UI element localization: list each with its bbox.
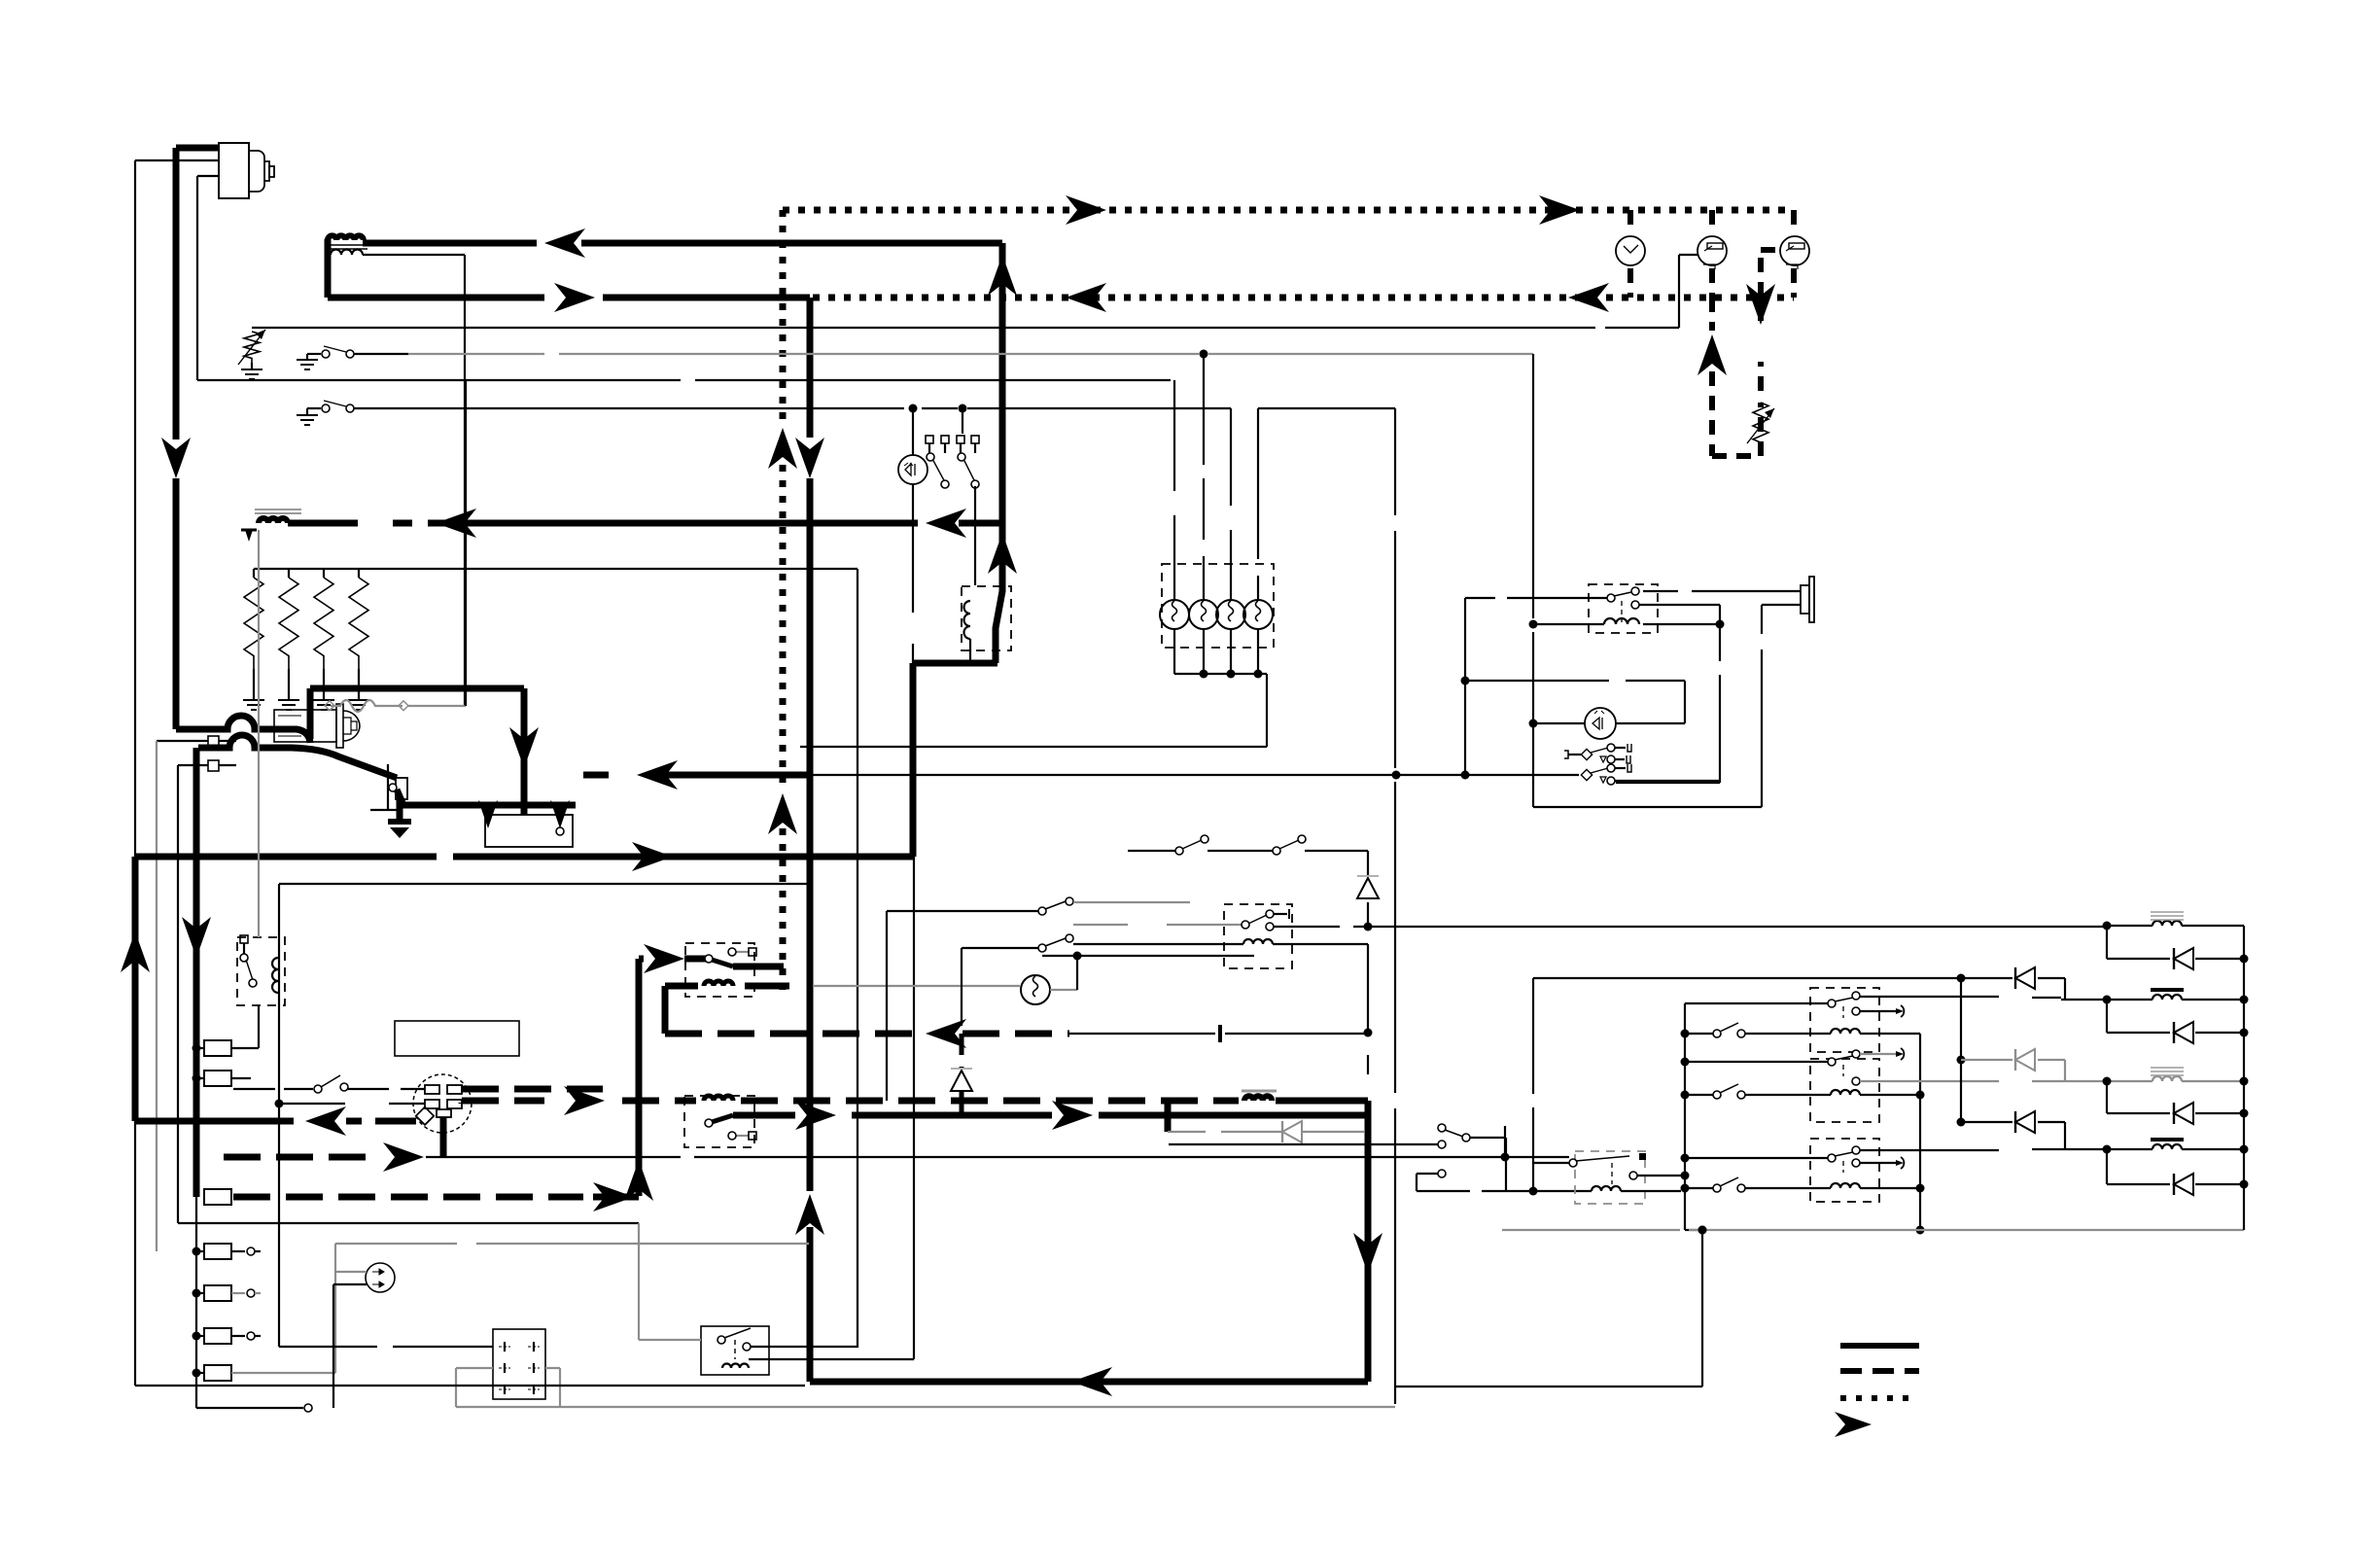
gray x469 — [455, 1368, 457, 1407]
indicator lamp feed — [912, 408, 914, 455]
neutral indicator lamp — [898, 455, 927, 484]
indicator loop y744 — [1529, 720, 1686, 728]
relay R3 aux contact — [728, 948, 756, 956]
fuel sender variable resistor — [1747, 403, 1774, 449]
ladder row2 coil line — [2061, 996, 2249, 1004]
arrow right y1147 b — [1052, 1101, 1093, 1130]
ground thick under solenoid — [388, 822, 411, 838]
clock gauge face — [1616, 236, 1645, 265]
relay RC coil row with switch — [1689, 1177, 1925, 1193]
bulb lead 3 — [1230, 408, 1232, 599]
arrow left y1063 — [926, 1019, 966, 1048]
ignition coil C1 secondary winding — [331, 250, 363, 256]
key switch line y1135 — [275, 1100, 426, 1108]
junction bulb2 on gray y364 — [1200, 350, 1208, 359]
control unit box — [395, 1021, 519, 1056]
arrow down x539 — [509, 727, 539, 768]
ladder row3 coil line gray — [2061, 1077, 2249, 1086]
flasher contact — [1629, 1172, 1681, 1179]
switch row y875 — [1128, 835, 1368, 855]
arrow up on x805 lower — [768, 793, 797, 834]
vertical x1812 horn lead — [1761, 605, 1763, 807]
turn indicator lamp — [1585, 708, 1616, 739]
ignition coil C2 ground tick — [241, 530, 257, 542]
relay RC contact upper line — [1860, 1149, 2061, 1150]
ladder diode row3 — [2107, 1103, 2249, 1124]
junction capacitor line — [1364, 1029, 1373, 1037]
relay R2 box — [1589, 584, 1658, 633]
thin y1385 feed — [279, 1346, 493, 1348]
fuel pump sensor component body — [219, 143, 274, 198]
pin TR — [447, 1085, 462, 1094]
arrow right y1147 a — [795, 1101, 836, 1130]
ladder diode row4 — [2107, 1174, 2249, 1195]
thin y797 right part — [810, 771, 1579, 780]
thick y1147 bus — [733, 1112, 1368, 1119]
relay RC box — [1810, 1139, 1879, 1202]
pin bottom — [437, 1109, 451, 1117]
ladder diode row1 — [2107, 948, 2249, 969]
junction y983 — [1042, 952, 1254, 977]
fuse F5 row — [192, 1328, 262, 1344]
ladder row4 coil line — [2061, 1145, 2249, 1154]
relay RB coil — [1831, 1090, 1860, 1095]
gray wire y951 to relay5 — [1073, 924, 1242, 926]
arrow up x139 — [121, 931, 150, 972]
arrow left y797 — [637, 760, 678, 790]
gray wire y928 — [1073, 901, 1190, 903]
bulb L3 — [1216, 600, 1245, 629]
thin x989 diode drop — [961, 948, 962, 1026]
wire thick solenoid to battery bus — [397, 790, 576, 805]
bulb lead 3 lower — [1227, 629, 1236, 679]
bulb lead 4 lower — [1254, 629, 1263, 679]
wire thin x479 to starter — [465, 380, 467, 706]
key switch line y1120 — [233, 1075, 425, 1093]
fuse F3 row — [192, 1244, 262, 1259]
wire thin x161 — [156, 741, 157, 1251]
relay R6 gray feed — [258, 530, 260, 937]
wire thick battery ground — [397, 799, 403, 822]
arrow up on x1031 — [988, 255, 1017, 296]
relay R2 coil line — [1533, 620, 1725, 629]
indicator lamp lower lead — [912, 484, 914, 663]
vertical x1435 long — [1394, 408, 1396, 1404]
resistor bank top bus — [254, 569, 857, 1348]
arrow down on x181 — [161, 438, 191, 478]
arrow down on sender loop — [1746, 284, 1775, 325]
dashed drop to clock — [1627, 210, 1633, 233]
relay R8 box — [701, 1326, 769, 1375]
relay RB contact upper gray — [1860, 1048, 1904, 1060]
relay R5 coil — [1073, 939, 1368, 944]
relay R3 coil — [704, 981, 733, 986]
relay R3 coil dash link — [665, 983, 789, 990]
thick y881 bus — [135, 854, 913, 860]
fuse F0 row — [192, 1040, 232, 1056]
vertical x1975 — [1916, 1034, 1925, 1235]
battery B1 box — [485, 815, 573, 847]
lighting rail x1733 — [1681, 1003, 1690, 1230]
wire coil1 secondary lead — [363, 255, 465, 706]
arrow right on D1 a — [1066, 195, 1106, 225]
thin y805 wire — [1616, 782, 1720, 784]
ladder coil W4 — [2151, 1140, 2184, 1149]
relay RB contact lower gray — [1852, 1077, 2061, 1085]
relay R5 box — [1224, 904, 1292, 968]
wire thick T1 coil1 top to right — [363, 240, 1002, 247]
ignition coil C2 winding — [259, 518, 288, 523]
wire thin x183 — [177, 765, 179, 1223]
arrow down x202 — [182, 917, 211, 958]
arrow left y1421 — [1071, 1367, 1112, 1396]
plug resistor P4 — [348, 569, 369, 710]
flasher relay R9 box — [1575, 1151, 1645, 1204]
gray y1407 feed — [456, 1368, 560, 1407]
arrow up on x805 upper — [768, 428, 797, 469]
ign multi switch row2 — [1581, 764, 1720, 785]
ladder feed row3 gray — [1961, 1049, 2065, 1081]
relay R2 blade — [1607, 587, 1639, 622]
relay R8 coil lead — [639, 1340, 914, 1359]
dashed corner at gauge G3 — [1791, 210, 1797, 298]
ladder right rail — [2243, 926, 2245, 1230]
thin x940 drop — [913, 857, 915, 1359]
gauge G3 face — [1780, 236, 1809, 269]
relay R8 switch — [717, 1328, 751, 1359]
junction y1190 x1548 — [1501, 1153, 1510, 1162]
arrow right y881 — [632, 842, 673, 871]
solenoid terminal — [389, 778, 407, 799]
relay RB pivot feed — [1685, 1050, 1860, 1076]
ladder coil W1 — [2151, 912, 2184, 926]
ignition coil C1 primary winding — [328, 235, 364, 240]
thin y700 wire — [1465, 680, 1685, 682]
wire thick coil1 left side down — [325, 239, 332, 298]
relay R3 blade — [705, 955, 784, 966]
thin gauge feed wire y337 — [252, 255, 1697, 328]
thick stub ignition bottom — [440, 1117, 447, 1157]
relay R6 box — [237, 937, 285, 1005]
plug resistor P2 — [278, 569, 299, 710]
wire thin vertical x139 long — [134, 160, 136, 1386]
wire thick battery positive drop x539 — [521, 688, 528, 815]
wire thin vertical x203 — [196, 198, 198, 380]
relay R5 contact — [1266, 923, 1274, 931]
arrow up on x833 lower — [795, 1194, 824, 1235]
bulb L2 — [1189, 600, 1218, 629]
wire thick T2 y306 — [328, 295, 810, 301]
fuse F4 row — [192, 1285, 262, 1301]
dashed sender loop right — [1761, 250, 1779, 456]
thick dash x989 diode — [951, 1034, 972, 1115]
thin y1063 capacitor link — [1069, 1033, 1364, 1035]
ladder row4 drop — [2106, 1149, 2108, 1184]
bulb bottom bus — [800, 674, 1267, 747]
legend arrow — [1835, 1412, 1872, 1437]
regulator pins — [499, 1342, 540, 1394]
arrow left on D2 b — [1568, 283, 1609, 312]
flasher coil — [1592, 1186, 1645, 1191]
bulb lead 4 — [1257, 408, 1259, 599]
dashed drop to fuel gauge — [1709, 210, 1715, 233]
relay RA pivot feed — [1685, 992, 1860, 1018]
relay R3 box — [685, 943, 754, 997]
horn B1 — [1801, 577, 1814, 622]
legend dashed line — [1840, 1368, 1919, 1374]
engine switch S1 with ground — [297, 346, 408, 369]
stop switch S2 with ground — [297, 401, 408, 425]
thin y1177 wire — [1169, 1143, 1438, 1145]
relay R2 contact B — [1631, 601, 1720, 609]
thin x1548 link — [1504, 1126, 1506, 1157]
arrow left on T1 — [544, 228, 585, 258]
thin bus top y909 — [279, 883, 810, 885]
bulb lead 1 lower — [1173, 629, 1175, 674]
wire thick y538 bus — [288, 520, 1002, 527]
relay R1 box — [962, 586, 1011, 650]
ignition coil C1 core — [325, 245, 367, 249]
ladder row3 drop — [2106, 1081, 2108, 1113]
battery terminal stub left — [478, 800, 498, 828]
thick dash y1190 with arrow — [224, 1142, 424, 1172]
relay R8 contact line — [751, 1347, 857, 1348]
relay R4 coil — [704, 1096, 733, 1101]
thick x139 riser — [132, 857, 139, 1121]
battery terminal stub right — [550, 800, 570, 835]
wire component feed thick — [176, 145, 219, 152]
gray y1279 link — [335, 1243, 809, 1245]
gray wire y364 — [408, 353, 1533, 355]
relay R3 coil drop — [662, 986, 669, 1034]
gray y1258 wire — [178, 1222, 639, 1224]
vertical x1407 mid — [1367, 944, 1369, 1074]
fuse F2 row thick — [204, 1189, 639, 1205]
relay R4 aux contact — [728, 1132, 756, 1140]
relay RC pivot feed — [1685, 1146, 1860, 1173]
head lamp bulb — [1021, 975, 1077, 1004]
relay RA coil — [1831, 1029, 1860, 1034]
ladder feed row2 — [1957, 967, 2066, 1000]
bulb lead 1 — [1173, 380, 1175, 599]
thick dash from pin MR to coil bus — [459, 1103, 466, 1104]
relay RA contact lower — [1852, 1005, 1904, 1017]
relay RB box — [1810, 1059, 1879, 1122]
relay RA coil row with switch — [1689, 1023, 1920, 1037]
dashed sender loop left — [1712, 298, 1761, 456]
thick dash y1063 — [665, 1031, 1069, 1037]
gray rail y1265 — [1502, 1226, 2244, 1235]
dashed vertical x805 — [780, 210, 787, 990]
relay R6 switch — [240, 935, 257, 987]
battery cable upper with grommet — [176, 716, 310, 743]
thin wire y420 — [408, 407, 1395, 409]
thin y953 long net — [1274, 923, 2103, 931]
gray wire to plug — [335, 1271, 367, 1273]
switch S7 blade — [1038, 934, 1073, 952]
gray riser x345 — [334, 1244, 336, 1373]
arrow down x1407 low — [1353, 1233, 1382, 1274]
wire thick vertical battery main x181 — [173, 148, 180, 729]
thin y1425 long — [135, 1385, 805, 1387]
vertical x1507 — [1461, 598, 1470, 780]
thin y975 wire — [962, 947, 1038, 949]
bulb lead 2 lower — [1200, 629, 1208, 679]
thin y1225 bus — [1417, 1187, 1592, 1196]
bulb cluster dashed box — [1162, 564, 1274, 648]
arrow right on D1 b — [1539, 195, 1580, 225]
starter motor body — [274, 704, 360, 748]
thin y1190 long — [426, 1156, 1569, 1158]
pin TL — [425, 1085, 439, 1094]
gray x657 drop — [638, 1223, 640, 1340]
pin diamond — [416, 1107, 434, 1125]
ladder coil W2 — [2151, 990, 2184, 1000]
regulator box — [493, 1329, 545, 1399]
plug resistor P3 — [313, 569, 334, 710]
connector square K2 — [178, 760, 236, 771]
ladder coil W3 gray — [2151, 1068, 2184, 1081]
wire thick vertical x833 — [807, 298, 814, 1382]
arrow right on T2 — [554, 283, 595, 312]
thin y615 wire — [1465, 597, 1607, 599]
gray diode return y1164 — [1168, 1121, 1364, 1142]
thick coil bus to corner — [1276, 1101, 1368, 1382]
ignition coil C2 core — [255, 509, 301, 513]
arrow left y538 b — [926, 509, 966, 538]
vertical x1769 — [1719, 605, 1721, 783]
legend dotted line — [1840, 1395, 1912, 1401]
fuel gauge F1 face — [1697, 236, 1727, 269]
arrow up x657 — [624, 1160, 653, 1201]
fuse F6 row gray — [192, 1365, 336, 1381]
wire gang2 to relay1 — [962, 408, 975, 585]
arrow left y538 a — [436, 509, 476, 538]
capacitor bar — [1218, 1025, 1222, 1042]
solenoid cross lines — [370, 764, 399, 810]
thick x202 drop — [193, 748, 200, 1197]
relay R4 blade — [705, 1115, 733, 1127]
relay R5 blade — [1242, 909, 1289, 929]
bulb L1 — [1160, 600, 1189, 629]
starter control gray wire — [325, 700, 466, 712]
bulb L4 — [1243, 600, 1273, 629]
ignition coil C3 core — [1242, 1090, 1277, 1093]
relay RA box — [1810, 988, 1879, 1052]
thin wire to plug — [333, 1284, 367, 1408]
flasher pivot — [1534, 1153, 1646, 1167]
horn lead upper — [1643, 590, 1801, 592]
ignition switch connector circle — [413, 1074, 472, 1133]
ladder left rail — [1957, 978, 1966, 1127]
arrow left y1153 — [305, 1106, 346, 1136]
relay R6 bottom lead — [231, 1005, 259, 1048]
wire component feed thin upper — [135, 159, 219, 161]
switch S6 blade — [1038, 897, 1073, 915]
flasher coil dashed drop — [1611, 1163, 1613, 1184]
thin y1006 wire — [1533, 977, 1957, 979]
battery cable lower with grommet — [198, 735, 397, 778]
arrow up relay R1 feed — [988, 533, 1017, 574]
ground below thermistor — [241, 363, 262, 379]
thick y1421 return — [810, 1379, 1368, 1386]
dotted bus D2 y306 — [813, 295, 1794, 301]
wire component feed thin lower — [197, 176, 219, 198]
plug resistor P1 — [243, 569, 264, 710]
relay R2 coil — [1604, 618, 1639, 624]
dotted bus D1 y216 — [783, 207, 1794, 214]
thick dash from pin TR — [462, 1086, 603, 1093]
connector square K1 — [157, 736, 236, 747]
ladder row2 drop — [2106, 1000, 2108, 1033]
thin y937 wire — [887, 911, 1038, 1101]
pin MR — [447, 1100, 462, 1108]
ign multi switch row1 — [1564, 744, 1631, 763]
thick jog x1201 — [1165, 1101, 1172, 1132]
gray y1447 long — [456, 1406, 1395, 1408]
thin y797 long wire — [583, 772, 810, 779]
relay RB coil row with switch — [1689, 1084, 1925, 1100]
vertical x1577 lower — [1532, 978, 1534, 1191]
dashed below fuel gauge — [1709, 268, 1715, 298]
ladder row1 drop — [2106, 926, 2108, 959]
junction switchgang b — [959, 404, 967, 413]
thick x657 riser — [636, 959, 643, 1196]
vertical x1577 upper — [1529, 354, 1538, 807]
ladder feed row4 — [1965, 1111, 2065, 1149]
switch gang1 terminals — [926, 436, 949, 488]
arrow up on sender loop — [1697, 334, 1727, 375]
thin coil out path — [1645, 1191, 1707, 1235]
relay R4 box — [684, 1096, 754, 1147]
thick y1153 to key switch — [135, 1118, 416, 1125]
arrow down on x833 — [795, 438, 824, 478]
gray lamp feed y1014 — [813, 985, 1020, 987]
horn lead lower — [1762, 604, 1801, 606]
thin y830 wire — [1533, 806, 1762, 808]
thin y1448 stub — [196, 1404, 312, 1412]
ladder diode row2 — [2107, 1022, 2249, 1043]
fuse F00 row — [192, 1071, 252, 1086]
bulb lead 2 — [1203, 354, 1205, 599]
vertical x1751 — [1701, 1230, 1703, 1387]
ignition coil C3 winding — [1244, 1096, 1272, 1101]
relay R3 blade feed — [639, 944, 706, 973]
pin ML — [425, 1100, 439, 1108]
thin wire y391 — [197, 379, 1171, 381]
relay R6 coil — [272, 958, 278, 993]
switch gang2 terminals — [957, 436, 979, 488]
relay RC coil — [1831, 1183, 1860, 1188]
wire thick y708 — [310, 688, 524, 739]
turnsignal contacts — [1417, 1124, 1506, 1191]
dashed drop below clock — [1627, 268, 1633, 298]
legend solid line — [1840, 1343, 1919, 1349]
thick dash coil bus y1132 — [462, 1086, 1239, 1115]
wire thick vertical x1031 — [999, 243, 1006, 523]
vertical x1733 — [1684, 681, 1686, 723]
vertical x287 — [278, 884, 280, 1347]
thin y1426 — [1396, 1386, 1702, 1387]
thermistor R5 — [238, 330, 265, 365]
accessory connector plug — [366, 1263, 395, 1292]
ladder row1 coil line — [2103, 922, 2245, 931]
junction switchgang a — [909, 404, 918, 413]
relay R1 thick switch path — [913, 523, 1002, 857]
relay RA contact upper line — [1860, 997, 2061, 998]
relay R8 coil — [722, 1364, 749, 1369]
arrow right y1231 — [593, 1182, 634, 1211]
